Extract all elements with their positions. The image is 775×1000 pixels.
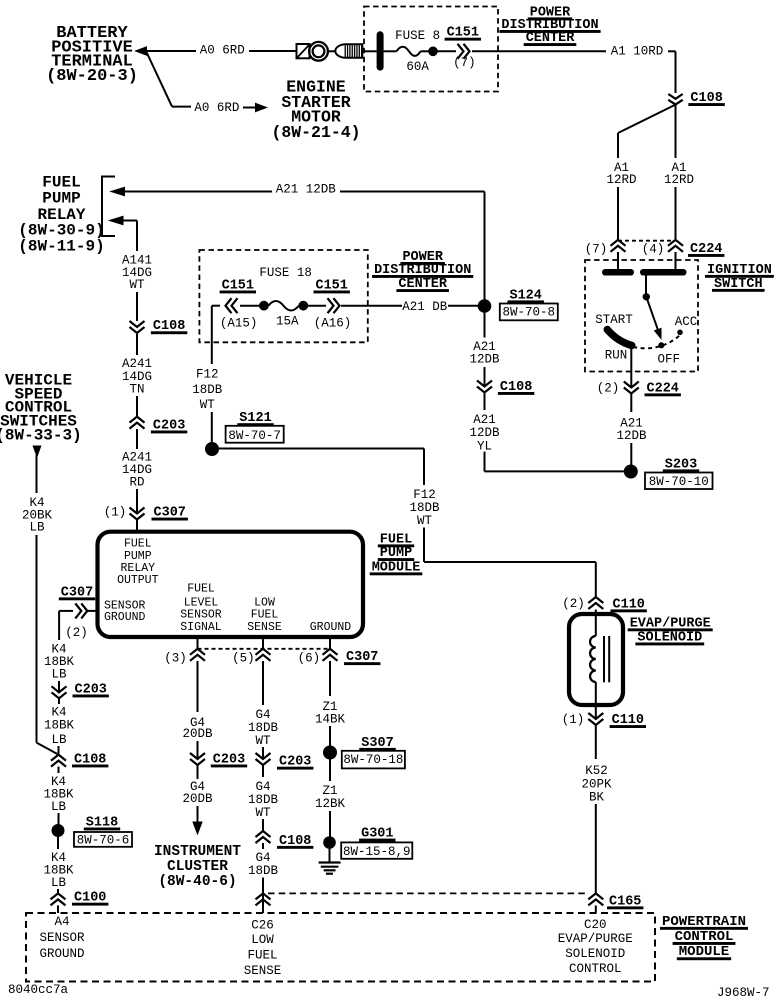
svg-text:OUTPUT: OUTPUT (117, 574, 159, 587)
svg-text:BK: BK (589, 791, 605, 805)
svg-text:WT: WT (200, 398, 216, 412)
svg-text:(1): (1) (104, 505, 127, 519)
svg-text:20DB: 20DB (182, 792, 213, 806)
svg-text:(8W-11-9): (8W-11-9) (18, 237, 104, 255)
svg-text:A21 DB: A21 DB (402, 300, 448, 314)
svg-text:(8W-33-3): (8W-33-3) (0, 426, 82, 444)
svg-text:F12: F12 (413, 488, 436, 502)
svg-text:8W-70-18: 8W-70-18 (343, 753, 403, 767)
svg-text:J968W-7: J968W-7 (717, 986, 770, 1000)
svg-text:FUEL: FUEL (187, 582, 215, 595)
svg-text:18DB: 18DB (248, 793, 279, 807)
svg-text:RELAY: RELAY (121, 562, 156, 575)
svg-text:18DB: 18DB (248, 721, 279, 735)
svg-text:(A16): (A16) (314, 316, 352, 330)
svg-text:FUEL: FUEL (124, 537, 152, 550)
svg-text:(3): (3) (164, 651, 187, 665)
svg-text:(8W-21-4): (8W-21-4) (271, 123, 360, 142)
svg-text:(8W-20-3): (8W-20-3) (46, 67, 138, 86)
svg-text:12DB: 12DB (469, 353, 500, 367)
svg-text:GROUND: GROUND (104, 611, 146, 624)
svg-text:INSTRUMENT: INSTRUMENT (154, 844, 241, 860)
svg-text:(7): (7) (453, 56, 476, 70)
svg-text:G4: G4 (255, 780, 270, 794)
svg-text:A0 6RD: A0 6RD (200, 43, 245, 57)
svg-text:SIGNAL: SIGNAL (180, 621, 222, 634)
svg-text:LB: LB (29, 521, 45, 535)
svg-text:GROUND: GROUND (39, 947, 84, 961)
svg-text:F12: F12 (196, 368, 219, 382)
svg-text:K52: K52 (585, 764, 608, 778)
svg-text:RD: RD (129, 476, 144, 490)
svg-text:LB: LB (51, 733, 67, 747)
svg-text:START: START (595, 313, 633, 327)
svg-text:8W-70-6: 8W-70-6 (77, 833, 130, 847)
svg-text:LB: LB (51, 800, 67, 814)
svg-text:(A15): (A15) (220, 316, 258, 330)
svg-text:12DB: 12DB (469, 426, 500, 440)
svg-text:18DB: 18DB (409, 501, 440, 515)
svg-text:20PK: 20PK (581, 778, 612, 792)
svg-text:A21: A21 (473, 413, 496, 427)
svg-text:12BK: 12BK (315, 797, 346, 811)
svg-text:GROUND: GROUND (310, 621, 352, 634)
svg-text:18DB: 18DB (192, 383, 223, 397)
svg-text:YL: YL (477, 439, 492, 453)
svg-text:(4): (4) (642, 243, 665, 257)
svg-text:EVAP/PURGE: EVAP/PURGE (558, 932, 633, 946)
svg-text:A21 12DB: A21 12DB (276, 182, 337, 196)
svg-text:SOLENOID: SOLENOID (565, 947, 625, 961)
svg-text:8W-70-8: 8W-70-8 (503, 306, 556, 320)
svg-text:FUEL: FUEL (247, 949, 277, 963)
svg-text:OFF: OFF (658, 353, 681, 367)
svg-text:WT: WT (255, 806, 271, 820)
svg-text:12DB: 12DB (616, 429, 647, 443)
svg-text:G4: G4 (255, 851, 270, 865)
svg-text:A0 6RD: A0 6RD (194, 101, 239, 115)
svg-text:G4: G4 (255, 708, 270, 722)
svg-text:SENSE: SENSE (244, 964, 282, 978)
svg-text:(1): (1) (562, 713, 585, 727)
svg-text:60A: 60A (406, 60, 429, 74)
svg-text:12RD: 12RD (664, 173, 694, 187)
svg-text:LB: LB (51, 668, 67, 682)
svg-text:LB: LB (51, 876, 67, 890)
svg-text:(6): (6) (298, 651, 321, 665)
svg-text:18DB: 18DB (248, 864, 279, 878)
svg-text:(2): (2) (562, 597, 585, 611)
svg-text:C20: C20 (584, 918, 607, 932)
svg-text:C26: C26 (251, 919, 274, 933)
svg-text:CONTROL: CONTROL (569, 962, 622, 976)
svg-text:14BK: 14BK (315, 713, 346, 727)
svg-text:(2): (2) (597, 382, 620, 396)
svg-text:A4: A4 (54, 915, 69, 929)
svg-text:A241: A241 (122, 357, 152, 371)
svg-text:18BK: 18BK (44, 719, 75, 733)
svg-text:PUMP: PUMP (42, 190, 80, 208)
svg-text:A1 10RD: A1 10RD (611, 45, 664, 59)
svg-text:SENSOR: SENSOR (180, 609, 222, 622)
svg-text:(2): (2) (65, 626, 88, 640)
svg-text:15A: 15A (276, 315, 299, 329)
svg-text:8W-70-10: 8W-70-10 (649, 475, 709, 489)
svg-text:WT: WT (129, 278, 145, 292)
svg-text:WT: WT (255, 734, 271, 748)
svg-text:CLUSTER: CLUSTER (167, 859, 228, 875)
svg-text:20DB: 20DB (182, 727, 213, 741)
svg-text:FUSE 8: FUSE 8 (395, 29, 440, 43)
svg-text:FUSE 18: FUSE 18 (259, 266, 312, 280)
svg-text:LOW: LOW (251, 933, 274, 947)
svg-text:SENSOR: SENSOR (39, 931, 85, 945)
svg-text:8W-70-7: 8W-70-7 (228, 429, 281, 443)
svg-text:12RD: 12RD (606, 173, 636, 187)
svg-text:SENSE: SENSE (247, 621, 282, 634)
svg-text:RUN: RUN (605, 349, 628, 363)
svg-text:(5): (5) (232, 651, 255, 665)
svg-text:FUEL: FUEL (251, 609, 279, 622)
svg-text:(8W-40-6): (8W-40-6) (158, 874, 236, 890)
svg-text:8040cc7a: 8040cc7a (8, 983, 69, 997)
svg-text:(7): (7) (585, 243, 608, 257)
svg-text:LEVEL: LEVEL (184, 596, 219, 609)
svg-text:LOW: LOW (254, 596, 275, 609)
svg-text:8W-15-8,9: 8W-15-8,9 (343, 845, 411, 859)
svg-text:ACC: ACC (675, 315, 698, 329)
svg-text:WT: WT (417, 514, 433, 528)
svg-text:TN: TN (129, 383, 144, 397)
svg-text:Z1: Z1 (322, 784, 337, 798)
